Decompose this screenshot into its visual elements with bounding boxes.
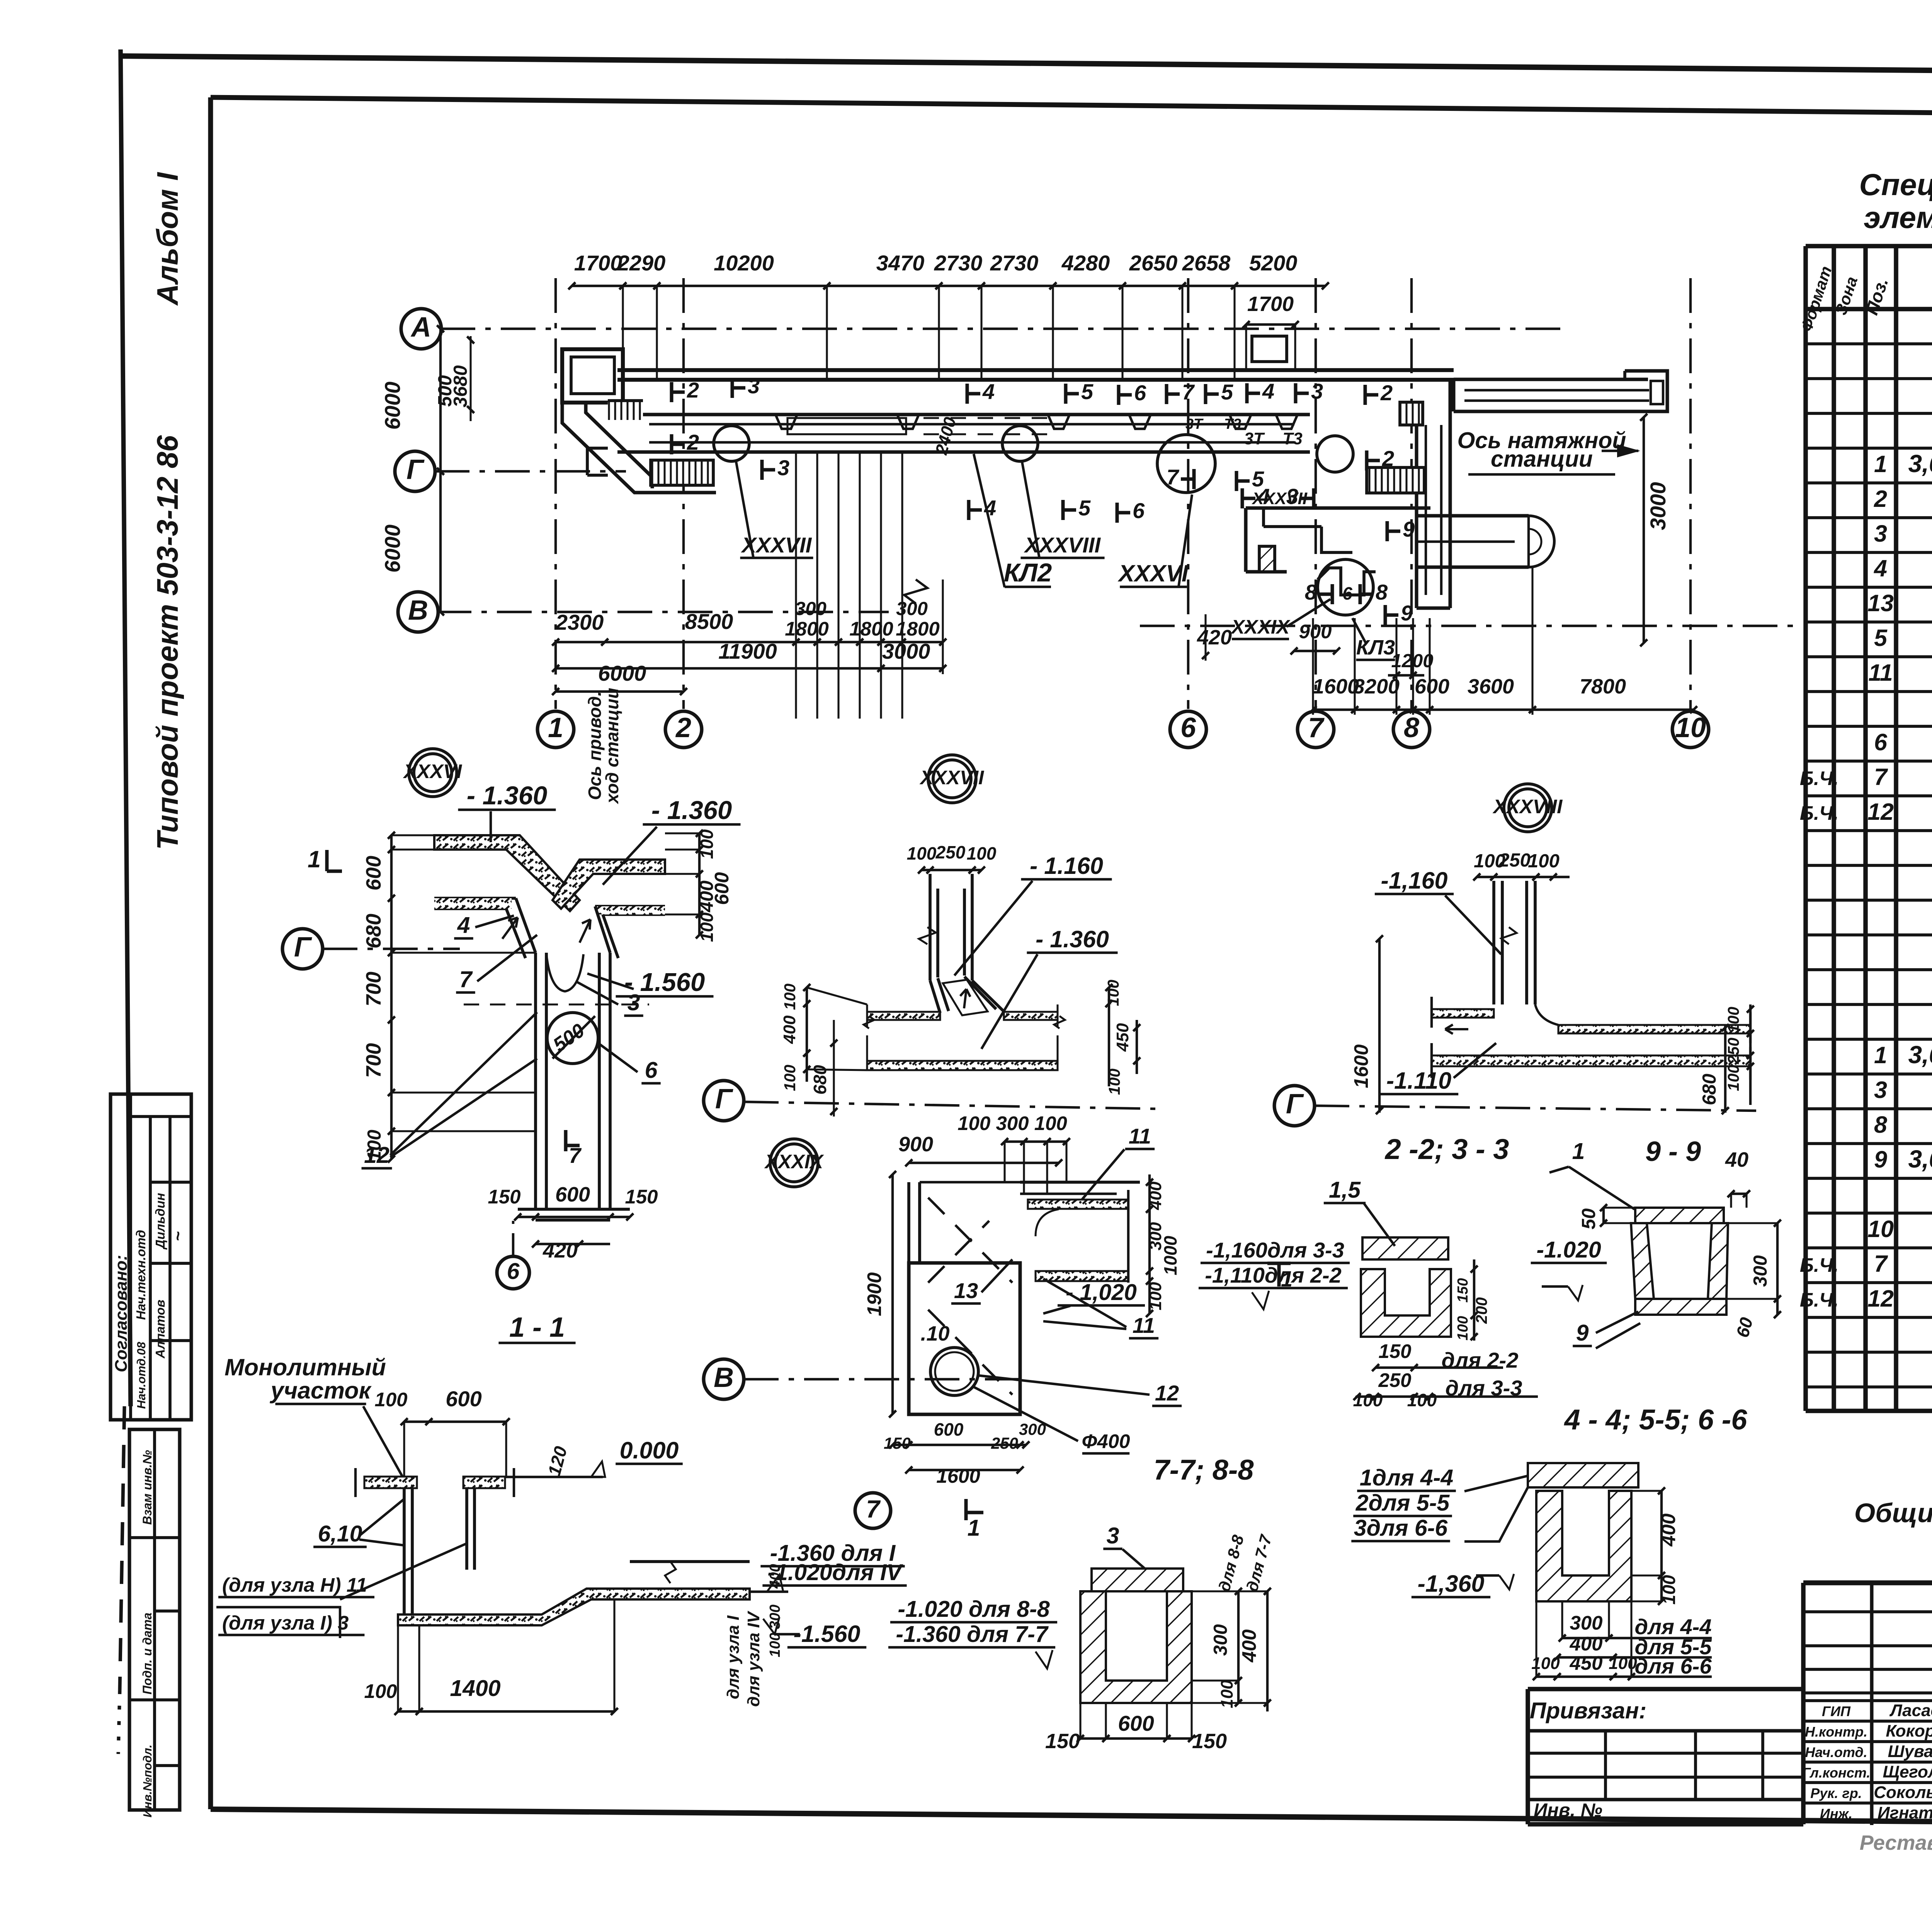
tee 37 top dim (922, 869, 981, 871)
svg-text:XXXVI: XXXVI (403, 760, 463, 782)
title block outline (1803, 1581, 1932, 1586)
svg-text:Б.Ч.: Б.Ч. (1800, 1289, 1839, 1311)
svg-text:- 1.360: - 1.360 (651, 796, 732, 825)
s99 cap (1635, 1208, 1724, 1223)
svg-text:-1,360: -1,360 (1418, 1570, 1485, 1597)
svg-text:3000: 3000 (882, 639, 930, 663)
axis 7 (1315, 278, 1317, 709)
svg-text:3: 3 (777, 455, 789, 480)
s1 mark 1 top (325, 850, 329, 871)
svg-text:Щеголев: Щеголев (1883, 1762, 1932, 1781)
svg-text:Согласовано:: Согласовано: (112, 1255, 131, 1372)
svg-text:11900: 11900 (718, 639, 777, 663)
node 39 bottom dims (893, 1444, 1026, 1446)
svg-text:300: 300 (1750, 1255, 1771, 1287)
svg-text:5: 5 (1078, 496, 1091, 520)
svg-text:8500: 8500 (685, 609, 733, 634)
svg-text:Альбом I: Альбом I (151, 172, 184, 306)
svg-text:элементов подпольных каналов: элементов подпольных каналов (1864, 200, 1932, 235)
s456 cap (1528, 1463, 1638, 1487)
svg-text:Б.Ч.: Б.Ч. (1800, 767, 1839, 789)
svg-text:600: 600 (934, 1419, 964, 1439)
stamp block Согласовано (111, 1094, 191, 1420)
svg-text:250: 250 (1378, 1369, 1411, 1391)
bottom dim rows (556, 641, 943, 643)
svg-text:(для узла I) 3: (для узла I) 3 (222, 1612, 349, 1634)
section flags lower (670, 434, 673, 454)
s1 top slab left (434, 835, 580, 911)
svg-text:7: 7 (866, 1495, 881, 1523)
svg-text:10: 10 (1675, 712, 1706, 743)
node label XXXVI (409, 749, 457, 797)
svg-text:1400: 1400 (450, 1676, 500, 1701)
svg-text:700: 700 (362, 972, 385, 1006)
svg-text:100: 100 (374, 1388, 407, 1411)
tee 38 elbow (1535, 1004, 1558, 1025)
dashed hidden duct (787, 418, 906, 434)
KL3 outline (1246, 506, 1430, 510)
s1 left dim chain (390, 835, 393, 1159)
svg-text:Шуваев: Шуваев (1888, 1742, 1932, 1761)
svg-text:3: 3 (628, 990, 640, 1015)
svg-text:-1.110: -1.110 (1386, 1067, 1452, 1094)
s456 body (1536, 1491, 1631, 1601)
stairs L-descent (562, 403, 716, 493)
stairs upper small (1400, 402, 1423, 425)
svg-text:Алпатов: Алпатов (153, 1300, 167, 1359)
monolith slabs (364, 1477, 417, 1488)
svg-text:100: 100 (1725, 1007, 1742, 1033)
svg-text:Игнатова: Игнатова (1878, 1803, 1932, 1822)
svg-text:900: 900 (898, 1133, 933, 1156)
svg-text:6000: 6000 (380, 382, 405, 430)
svg-text:400: 400 (1146, 1181, 1165, 1210)
svg-text:7: 7 (569, 1143, 582, 1168)
svg-text:6: 6 (1342, 583, 1352, 603)
svg-text:XXXVI: XXXVI (1117, 560, 1189, 586)
svg-text:Сокольцов: Сокольцов (1874, 1783, 1932, 1802)
svg-text:3600: 3600 (1468, 675, 1514, 698)
s1 top slab right (553, 860, 665, 909)
top dimension row (572, 285, 1325, 287)
svg-text:300: 300 (795, 598, 827, 619)
plan: axis Г dash-dot (435, 470, 626, 472)
svg-text:1800: 1800 (849, 618, 893, 640)
svg-text:250: 250 (991, 1434, 1018, 1452)
right extension channel (1452, 380, 1456, 411)
svg-text:1000: 1000 (1160, 1236, 1180, 1275)
s1 mid slab left (434, 897, 516, 900)
svg-text:600: 600 (711, 872, 733, 905)
u22 mark T1 (1267, 1262, 1291, 1265)
svg-text:-1.020: -1.020 (1536, 1237, 1601, 1263)
signature columns (1870, 1583, 1874, 1825)
svg-text:Ф400: Ф400 (1082, 1430, 1130, 1452)
flags around KL3 (1386, 521, 1389, 541)
svg-text:-1.020 для 8-8: -1.020 для 8-8 (898, 1596, 1049, 1622)
node label XXXIX (770, 1139, 818, 1187)
svg-text:Кокорев: Кокорев (1886, 1722, 1932, 1740)
s78 body (1080, 1591, 1192, 1703)
svg-text:- 1.360: - 1.360 (467, 781, 548, 810)
tee 37 vertical duct (929, 874, 932, 981)
s99 walls (1631, 1223, 1654, 1299)
left entrance box (562, 349, 623, 403)
node 39 dims top (909, 1162, 1059, 1164)
svg-text:3: 3 (1874, 520, 1887, 547)
svg-text:XXXVII: XXXVII (919, 766, 985, 789)
signature rows (1803, 1699, 1932, 1702)
svg-text:XXXVII: XXXVII (1251, 489, 1308, 508)
node 39 upper duct (1020, 1181, 1140, 1184)
node 39 left dim 1900 (891, 1174, 894, 1414)
svg-text:100: 100 (967, 843, 997, 863)
svg-text:420: 420 (543, 1239, 578, 1262)
svg-text:2300: 2300 (555, 610, 604, 634)
flags row XXXVII note (1241, 488, 1244, 508)
scan paper edge top (121, 56, 1932, 76)
svg-text:- 1.160: - 1.160 (1030, 853, 1103, 879)
tee 37 left dims (806, 987, 808, 1082)
node label XXXVII (928, 755, 976, 803)
svg-text:3,006,1 - 2/82, вып. 1-2: 3,006,1 - 2/82, вып. 1-2 (1908, 1041, 1932, 1069)
section flags upper (670, 382, 673, 402)
axis circle А (401, 309, 441, 349)
svg-text:участок: участок (270, 1377, 372, 1404)
svg-text:3для 6-6: 3для 6-6 (1354, 1515, 1448, 1541)
svg-text:150: 150 (1455, 1278, 1471, 1302)
svg-text:12: 12 (1867, 1285, 1894, 1312)
svg-text:150: 150 (1192, 1730, 1227, 1753)
svg-text:3000: 3000 (1646, 482, 1670, 530)
svg-text:1700: 1700 (1247, 292, 1294, 316)
vertical shaft (1415, 411, 1418, 608)
svg-text:Г: Г (1286, 1089, 1304, 1120)
svg-text:1: 1 (968, 1515, 980, 1541)
building wall top (617, 368, 1454, 372)
svg-text:1: 1 (1572, 1139, 1585, 1164)
svg-text:-1.020для IV: -1.020для IV (767, 1560, 903, 1585)
svg-text:420: 420 (1197, 626, 1232, 649)
s1 axis 6 circle (497, 1256, 529, 1289)
svg-text:3: 3 (1286, 484, 1298, 508)
svg-text:Нач.техн.отд: Нач.техн.отд (134, 1230, 148, 1320)
svg-text:300: 300 (767, 1604, 783, 1629)
svg-text:100: 100 (781, 1065, 799, 1091)
svg-text:1900: 1900 (863, 1272, 885, 1316)
svg-text:КЛ2: КЛ2 (1004, 558, 1052, 587)
svg-text:7800: 7800 (1580, 675, 1626, 698)
svg-text:600: 600 (446, 1387, 481, 1411)
svg-text:400: 400 (1569, 1633, 1602, 1655)
svg-text:3Т: 3Т (1185, 416, 1204, 432)
svg-text:600: 600 (1415, 675, 1449, 698)
s1 circle 500 (547, 1013, 598, 1064)
svg-text:Г: Г (715, 1084, 733, 1115)
svg-text:Дильдин: Дильдин (153, 1193, 167, 1250)
svg-text:680: 680 (1699, 1074, 1720, 1105)
svg-text:4280: 4280 (1061, 251, 1110, 275)
svg-text:0.000: 0.000 (620, 1437, 679, 1463)
svg-text:450: 450 (1569, 1652, 1602, 1674)
svg-text:Спецификация к схеме распол: Спецификация к схеме расположения (1859, 167, 1932, 202)
svg-text:100: 100 (1407, 1390, 1437, 1410)
svg-text:3470: 3470 (876, 251, 925, 275)
svg-text:Ласаев: Ласаев (1889, 1701, 1932, 1720)
svg-text:2: 2 (687, 378, 699, 402)
svg-text:3Т: 3Т (1244, 429, 1265, 448)
svg-text:13: 13 (1867, 590, 1894, 616)
s1 mark 7 bottom (564, 1130, 568, 1151)
svg-text:Б.Ч.: Б.Ч. (1800, 1254, 1839, 1276)
svg-text:6: 6 (645, 1057, 658, 1083)
svg-text:XXXIX: XXXIX (764, 1151, 824, 1173)
svg-text:5200: 5200 (1249, 251, 1298, 275)
svg-text:станции: станции (1491, 446, 1593, 472)
svg-text:1: 1 (308, 846, 321, 872)
tee 38 vertical duct (1492, 881, 1495, 1004)
svg-text:600: 600 (555, 1183, 590, 1206)
axis 8 (1410, 278, 1413, 709)
svg-text:Т3: Т3 (1282, 429, 1302, 448)
s1 dashed water line (464, 1003, 649, 1005)
svg-text:-1,160: -1,160 (1381, 867, 1448, 894)
svg-text:100: 100 (697, 912, 717, 942)
svg-text:6000: 6000 (380, 525, 405, 573)
svg-text:100: 100 (1353, 1390, 1383, 1410)
node 39 box (909, 1263, 1020, 1414)
svg-text:6: 6 (507, 1259, 520, 1284)
svg-text:900: 900 (1299, 620, 1332, 642)
svg-text:6,10: 6,10 (318, 1521, 362, 1547)
svg-text:Инв.№подл.: Инв.№подл. (141, 1745, 154, 1818)
stamp block inv numbers (129, 1429, 180, 1810)
long extension verticals (795, 452, 797, 719)
svg-text:680: 680 (362, 914, 385, 948)
svg-text:3200: 3200 (1353, 675, 1400, 698)
svg-text:4: 4 (982, 379, 995, 404)
svg-text:ход станции: ход станции (602, 688, 622, 805)
svg-text:Нач.отд.: Нач.отд. (1805, 1744, 1867, 1760)
svg-text:7: 7 (1308, 712, 1325, 743)
svg-text:Рук. гр.: Рук. гр. (1810, 1785, 1862, 1801)
scan paper edge left (121, 49, 131, 1406)
plan: axis А dash-dot (440, 328, 1569, 330)
svg-text:1600: 1600 (1350, 1044, 1372, 1088)
svg-text:3: 3 (1874, 1077, 1887, 1103)
svg-text:Подп. и дата: Подп. и дата (140, 1613, 154, 1694)
svg-text:-1.360 для 7-7: -1.360 для 7-7 (896, 1621, 1049, 1647)
svg-text:450: 450 (1113, 1023, 1132, 1052)
svg-text:Нач.отд.08: Нач.отд.08 (134, 1342, 148, 1409)
svg-text:100: 100 (1725, 1065, 1742, 1091)
svg-text:4: 4 (1873, 555, 1887, 581)
axis 2 (682, 278, 685, 709)
svg-text:100: 100 (781, 984, 799, 1010)
svg-text:3: 3 (1311, 379, 1323, 403)
svg-text:1700: 1700 (574, 251, 622, 275)
svg-text:4: 4 (457, 913, 470, 938)
svg-text:9: 9 (1576, 1320, 1589, 1346)
svg-text:50: 50 (1578, 1208, 1599, 1230)
svg-text:1: 1 (548, 712, 563, 743)
svg-text:100 300 100: 100 300 100 (957, 1112, 1067, 1134)
svg-text:150: 150 (625, 1186, 658, 1208)
channel KL2 band (617, 413, 1310, 416)
monolith top dim (404, 1421, 506, 1423)
svg-text:250: 250 (935, 842, 966, 862)
svg-text:8: 8 (1874, 1111, 1887, 1138)
monolith bottom slab (398, 1589, 750, 1625)
svg-text:8: 8 (1404, 712, 1419, 743)
svg-text:Типовой проект 503-3-12 86: Типовой проект 503-3-12 86 (151, 435, 184, 850)
privyazan stamp (1528, 1687, 1803, 1691)
svg-text:12: 12 (1155, 1381, 1179, 1405)
u22 cap (1362, 1237, 1448, 1259)
svg-text:-1,110для 2-2: -1,110для 2-2 (1205, 1263, 1342, 1287)
svg-text:1для 4-4: 1для 4-4 (1360, 1465, 1453, 1490)
svg-text:XXXIX: XXXIX (1230, 616, 1291, 638)
svg-text:11: 11 (1129, 1124, 1151, 1148)
svg-text:2650: 2650 (1129, 251, 1178, 275)
svg-text:300: 300 (1570, 1612, 1602, 1634)
svg-text:1: 1 (1874, 451, 1887, 477)
s1 shaft bottom (518, 1208, 630, 1211)
svg-text:100: 100 (364, 1680, 397, 1702)
svg-text:1800: 1800 (785, 618, 828, 640)
svg-text:3: 3 (1107, 1523, 1119, 1548)
svg-text:5: 5 (1221, 380, 1233, 404)
s1 funnel (516, 898, 536, 953)
svg-text:400: 400 (1238, 1629, 1260, 1662)
svg-text:600: 600 (1118, 1711, 1154, 1735)
svg-text:9: 9 (1874, 1146, 1887, 1173)
s78 cap (1092, 1569, 1183, 1591)
node label XXXVIII (1504, 784, 1552, 832)
node 39 circle F400 (930, 1348, 978, 1395)
svg-text:6: 6 (1180, 712, 1196, 743)
svg-text:В: В (408, 595, 428, 626)
svg-text:6: 6 (1874, 729, 1888, 755)
svg-text:Н.контр.: Н.контр. (1805, 1724, 1867, 1740)
svg-text:Взам инв.№: Взам инв.№ (140, 1450, 154, 1525)
svg-text:9 - 9: 9 - 9 (1645, 1136, 1701, 1167)
monolith walls (403, 1488, 406, 1618)
svg-text:1: 1 (1874, 1042, 1887, 1068)
axis 10 (1689, 278, 1692, 709)
svg-text:2: 2 (1874, 486, 1887, 512)
svg-text:10: 10 (1867, 1216, 1894, 1242)
plan: axis В dash-dot (437, 611, 889, 613)
svg-text:1600: 1600 (936, 1465, 980, 1487)
svg-text:КЛ3: КЛ3 (1356, 636, 1395, 659)
svg-text:40: 40 (1725, 1148, 1748, 1171)
svg-text:5: 5 (1874, 625, 1888, 651)
svg-text:7: 7 (1182, 380, 1195, 404)
svg-text:100: 100 (1218, 1680, 1236, 1708)
svg-text:1600: 1600 (1313, 675, 1359, 698)
s1 arrows in funnel (502, 918, 518, 939)
svg-text:7: 7 (1874, 1251, 1888, 1277)
svg-text:2для 5-5: 2для 5-5 (1355, 1490, 1450, 1516)
svg-text:Инв. №: Инв. № (1534, 1800, 1602, 1821)
svg-text:7: 7 (1167, 465, 1180, 489)
svg-text:400: 400 (767, 1564, 783, 1589)
svg-text:150: 150 (488, 1186, 520, 1208)
svg-text:100: 100 (697, 829, 717, 859)
svg-text:1: 1 (1281, 1268, 1293, 1291)
dim 3000 vertical (1643, 417, 1645, 643)
horseshoe tension station (1417, 514, 1529, 518)
svg-text:3680: 3680 (450, 365, 471, 407)
svg-text:Г: Г (406, 454, 425, 485)
node 39 axis B (704, 1359, 744, 1399)
svg-text:Гл.конст.: Гл.конст. (1802, 1765, 1871, 1781)
svg-text:7-7; 8-8: 7-7; 8-8 (1153, 1454, 1254, 1486)
tee 38 axis Г (1274, 1086, 1315, 1126)
node 39 mark 1 (964, 1499, 968, 1520)
node 39 right dims (1148, 1174, 1151, 1314)
svg-text:1,5: 1,5 (1329, 1177, 1361, 1203)
svg-text:2: 2 (675, 712, 691, 743)
svg-text:Монолитный: Монолитный (224, 1354, 386, 1380)
svg-text:4: 4 (1262, 379, 1274, 403)
axis circle 7 (855, 1493, 891, 1528)
svg-text:- 1.360: - 1.360 (1036, 926, 1109, 952)
svg-text:150: 150 (1378, 1340, 1411, 1362)
svg-text:5: 5 (1081, 379, 1094, 404)
svg-text:100: 100 (767, 1633, 783, 1657)
svg-text:250: 250 (1725, 1038, 1742, 1065)
svg-text:100: 100 (1104, 980, 1122, 1006)
svg-text:100: 100 (1455, 1316, 1471, 1340)
svg-text:2730: 2730 (990, 251, 1039, 275)
extension end hook (1648, 371, 1667, 411)
s1 axis Г circle (282, 929, 323, 969)
svg-text:Т3: Т3 (1224, 416, 1241, 432)
svg-text:12: 12 (1867, 799, 1894, 825)
axis 6 (1187, 278, 1189, 709)
svg-text:3,006.1 - 2/82, вып. 1-2: 3,006.1 - 2/82, вып. 1-2 (1908, 450, 1932, 478)
s1 mid slab right (595, 905, 665, 908)
svg-text:8: 8 (1305, 580, 1317, 604)
svg-text:2: 2 (1380, 381, 1393, 405)
svg-text:11: 11 (1868, 659, 1893, 686)
tee 38 horizontal duct (1432, 1009, 1494, 1018)
svg-text:А: А (410, 312, 431, 343)
u22 bottom dims (1376, 1366, 1414, 1369)
svg-text:Б.Ч.: Б.Ч. (1800, 802, 1839, 824)
svg-text:2 -2; 3 - 3: 2 -2; 3 - 3 (1384, 1133, 1509, 1165)
s456 label 9 leader second line (1596, 1323, 1640, 1348)
svg-text:-1.560: -1.560 (794, 1621, 861, 1647)
svg-text:100: 100 (1528, 851, 1560, 872)
channel joints (776, 415, 797, 429)
svg-text:для узла IV: для узла IV (744, 1610, 763, 1706)
svg-text:3,006,1 - 2/82, вып. 1-1: 3,006,1 - 2/82, вып. 1-1 (1908, 1145, 1932, 1173)
svg-text:7: 7 (459, 967, 473, 992)
s78 bottom dims (1080, 1737, 1192, 1740)
axis circle В (398, 592, 438, 632)
tee 37 bend & arrow plate (930, 981, 940, 1013)
axis circle Г (395, 451, 435, 491)
svg-text:300: 300 (1019, 1420, 1046, 1438)
svg-text:150: 150 (1045, 1730, 1080, 1753)
monolith bottom dim (398, 1710, 614, 1713)
s1 right dim chain (698, 833, 701, 935)
svg-text:-1,160для 3-3: -1,160для 3-3 (1206, 1238, 1344, 1262)
svg-text:~: ~ (168, 1231, 187, 1241)
